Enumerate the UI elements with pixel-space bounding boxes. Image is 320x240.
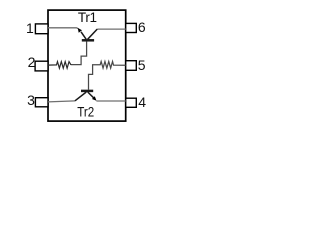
svg-text:4: 4 [138,94,146,110]
svg-text:Tr2: Tr2 [77,105,94,120]
svg-text:3: 3 [27,92,35,108]
svg-text:1: 1 [26,20,34,36]
svg-text:Tr1: Tr1 [78,10,97,25]
svg-text:6: 6 [138,19,146,35]
svg-text:2: 2 [28,54,36,70]
svg-text:5: 5 [138,57,146,73]
